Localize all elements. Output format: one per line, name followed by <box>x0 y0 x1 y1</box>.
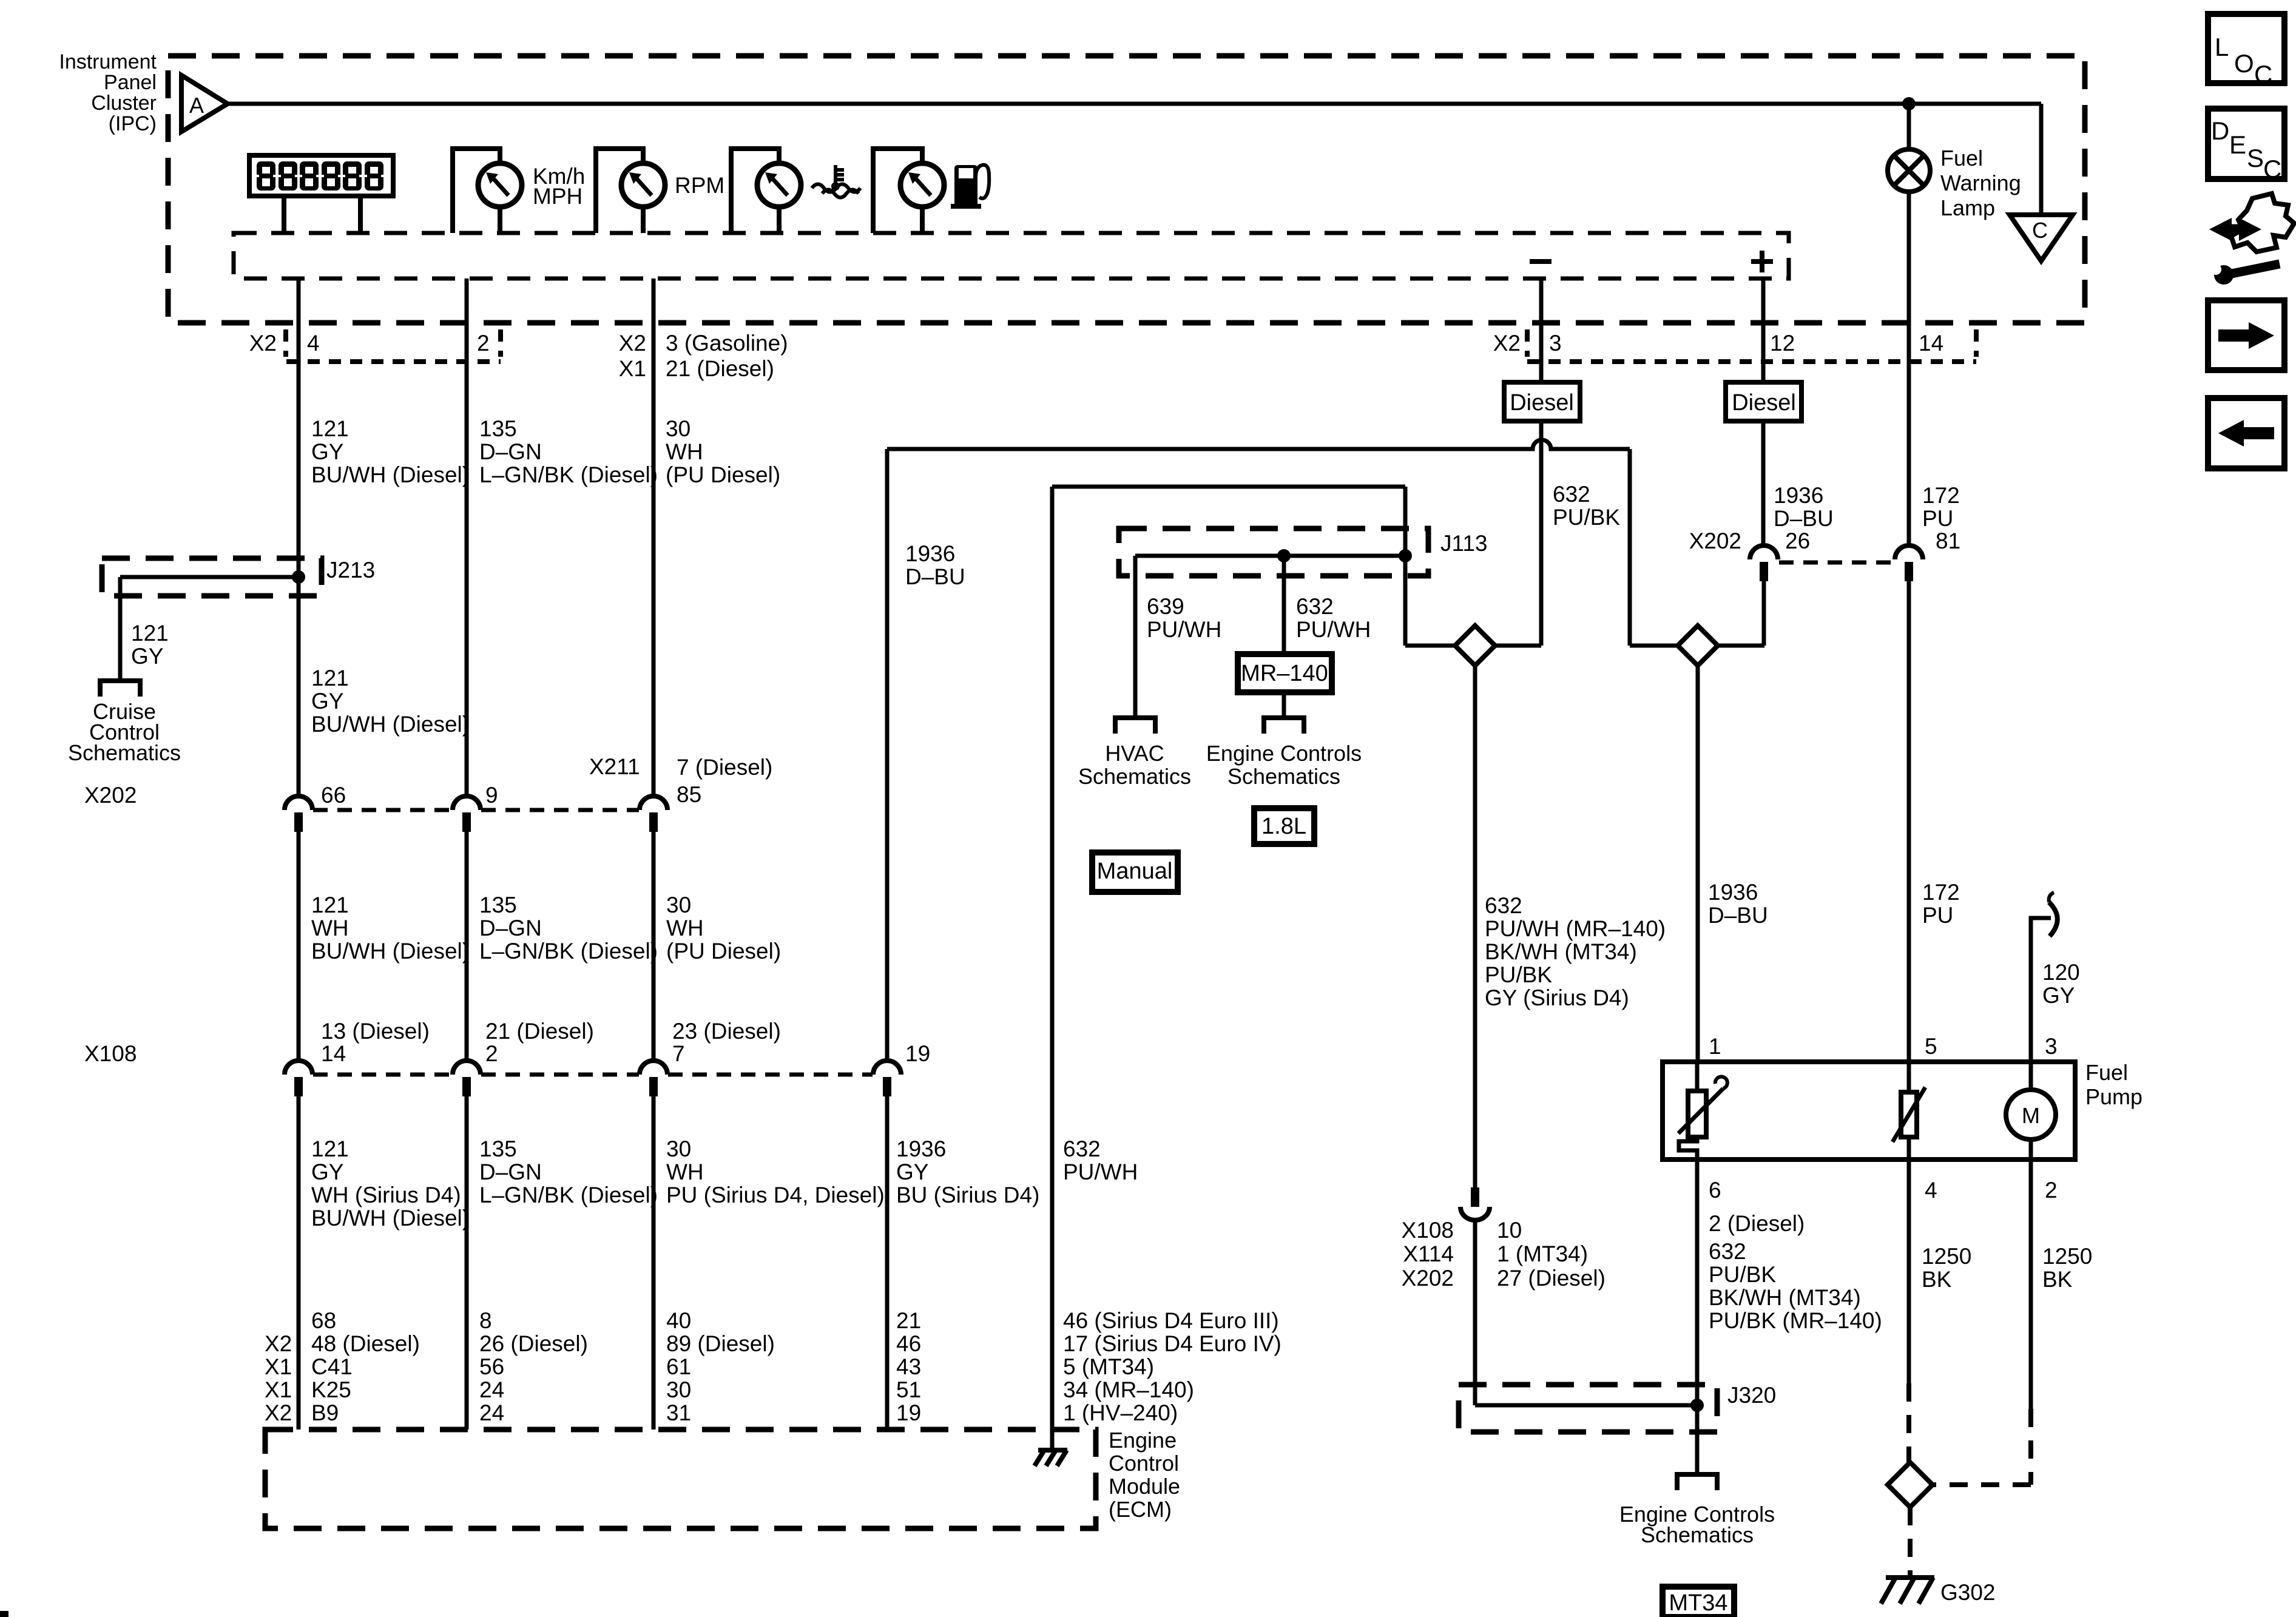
svg-text:3: 3 <box>1549 331 1562 356</box>
svg-text:1936: 1936 <box>905 541 955 566</box>
svg-text:Schematics: Schematics <box>1641 1522 1754 1547</box>
speedometer gauge Km/h MPH <box>453 149 500 233</box>
wire - J113 to splice diamond A <box>1403 556 1408 646</box>
wire - diamond A down to splice connector <box>1473 666 1477 1187</box>
svg-text:X202: X202 <box>1402 1266 1454 1291</box>
svg-text:2 (Diesel): 2 (Diesel) <box>1709 1211 1805 1236</box>
svg-text:89 (Diesel): 89 (Diesel) <box>666 1331 775 1356</box>
svg-text:5 (MT34): 5 (MT34) <box>1063 1354 1154 1379</box>
node - J213 junction dot <box>292 570 305 584</box>
wire 1250 BK from pump pin 2 <box>2029 1160 2033 1409</box>
wire 121 GY column (IPC pin 4 to ECM) <box>297 383 301 796</box>
svg-text:56: 56 <box>479 1354 504 1379</box>
svg-text:X202: X202 <box>1689 528 1741 553</box>
wire - IPC pin 12 (plus) lead <box>1761 279 1766 383</box>
node - J113 dot right <box>1399 549 1412 562</box>
wire 632 PU/WH branch to MR-140 <box>1282 556 1286 654</box>
wire 121 lower segment to ECM <box>297 1096 301 1430</box>
svg-text:C: C <box>2254 60 2272 89</box>
svg-text:(PU Diesel): (PU Diesel) <box>666 462 780 487</box>
svg-text:Schematics: Schematics <box>68 740 181 765</box>
svg-text:M: M <box>2022 1103 2040 1128</box>
svg-text:46: 46 <box>896 1331 921 1356</box>
1.8L option box <box>1254 808 1314 844</box>
wire 30 WH column (IPC pin 3/21 to ECM) <box>652 383 656 796</box>
svg-text:GY: GY <box>896 1160 928 1184</box>
svg-text:Engine Controls: Engine Controls <box>1206 741 1362 766</box>
svg-text:8: 8 <box>479 1308 492 1333</box>
connector X202 bump pin 9 <box>453 796 481 810</box>
wire 1936 right drop to diamond B <box>1628 449 1632 646</box>
off-page connector to Engine Controls MT34 <box>1677 1474 1717 1490</box>
svg-text:PU/WH (MR–140): PU/WH (MR–140) <box>1485 916 1666 941</box>
svg-text:1250: 1250 <box>2042 1244 2092 1269</box>
svg-text:13 (Diesel): 13 (Diesel) <box>321 1019 430 1044</box>
svg-text:BU/WH (Diesel): BU/WH (Diesel) <box>311 939 470 964</box>
svg-text:27 (Diesel): 27 (Diesel) <box>1497 1266 1606 1291</box>
svg-text:23 (Diesel): 23 (Diesel) <box>672 1019 781 1044</box>
svg-text:40: 40 <box>666 1308 691 1333</box>
fuel level gauge <box>873 149 922 233</box>
svg-text:135: 135 <box>479 1136 517 1161</box>
svg-text:6: 6 <box>1709 1178 1721 1203</box>
svg-text:7 (Diesel): 7 (Diesel) <box>677 755 772 780</box>
svg-text:2: 2 <box>485 1041 498 1066</box>
wire 1936 riser at left <box>885 449 890 1061</box>
svg-text:MR–140: MR–140 <box>1241 661 1328 686</box>
connector X108 bump pin 14 <box>285 1061 312 1075</box>
svg-text:L: L <box>2215 33 2229 61</box>
svg-text:L–GN/BK (Diesel): L–GN/BK (Diesel) <box>479 462 658 487</box>
connector A triangle (IPC data line driver) <box>181 75 228 132</box>
Engine Control Module (ECM) dashed box <box>265 1430 1096 1528</box>
svg-text:172: 172 <box>1922 880 1960 905</box>
svg-text:GY: GY <box>311 1160 343 1184</box>
svg-text:632: 632 <box>1485 893 1522 918</box>
svg-text:26 (Diesel): 26 (Diesel) <box>479 1331 588 1356</box>
svg-text:E: E <box>2229 130 2246 159</box>
coolant temperature gauge <box>731 149 779 233</box>
connector X202 dashed plane right <box>1779 561 1893 565</box>
svg-text:7: 7 <box>672 1041 685 1066</box>
connector X108 bump pin 7 <box>640 1061 667 1075</box>
svg-text:D–GN: D–GN <box>479 439 542 464</box>
wire 30 lower segment to ECM <box>652 1096 656 1430</box>
connector X202 bump pin 66 <box>285 796 312 810</box>
svg-text:L–GN/BK (Diesel): L–GN/BK (Diesel) <box>479 1183 658 1207</box>
svg-text:Engine: Engine <box>1109 1428 1177 1453</box>
wire 1250 BK from pump pin 4 <box>1907 1160 1911 1383</box>
odometer display (888888) <box>249 155 393 196</box>
svg-text:19: 19 <box>905 1041 930 1066</box>
svg-text:PU: PU <box>1922 506 1953 531</box>
Fuel Pump box <box>1663 1062 2075 1160</box>
wire - diamond A to 632 PU/BK riser <box>1495 644 1541 648</box>
wire - splice connector down to J320 <box>1473 1220 1477 1405</box>
page artifact dot bottom-left <box>0 1611 8 1617</box>
wire 1936 horizontal run <box>887 440 1630 449</box>
svg-text:Cluster: Cluster <box>91 92 157 115</box>
Manual option box <box>1092 852 1178 892</box>
svg-text:D–BU: D–BU <box>905 564 965 589</box>
svg-text:WH: WH <box>666 439 703 464</box>
svg-text:4: 4 <box>307 331 320 356</box>
svg-text:BK/WH (MT34): BK/WH (MT34) <box>1709 1285 1861 1310</box>
node - junction at fuel warning lamp <box>1902 97 1916 110</box>
svg-text:61: 61 <box>666 1354 691 1379</box>
fuel pump motor M <box>2029 1062 2033 1090</box>
svg-text:632: 632 <box>1709 1239 1746 1264</box>
svg-text:21 (Diesel): 21 (Diesel) <box>666 356 774 381</box>
svg-text:X114: X114 <box>1403 1241 1454 1266</box>
wire 135 D-GN column (IPC pin 2 to ECM) <box>465 383 469 796</box>
inner dashed box around gauge commons <box>234 233 1789 279</box>
wire dashed splice to G302 <box>1908 1507 1913 1575</box>
off-page connector to Engine Controls <box>1264 718 1304 734</box>
wire dashed pin2 to ground splice <box>2028 1409 2033 1485</box>
wire - diamond B right to Diesel 2 drop <box>1718 644 1764 648</box>
off-page connector to Cruise Control <box>100 681 140 697</box>
svg-text:C: C <box>2032 218 2048 243</box>
svg-text:D–BU: D–BU <box>1708 903 1768 928</box>
wire 121 WH middle segment <box>297 832 301 1061</box>
svg-text:121: 121 <box>311 666 349 690</box>
wire 135 lower segment to ECM <box>465 1096 469 1430</box>
svg-text:GY: GY <box>2042 983 2075 1008</box>
ground G302 symbol <box>1886 1575 1934 1580</box>
svg-text:GY: GY <box>311 689 343 714</box>
svg-text:30: 30 <box>666 1377 691 1402</box>
Instrument Panel Cluster (IPC) dashed boundary <box>168 56 2085 323</box>
svg-text:21: 21 <box>896 1308 921 1333</box>
svg-text:BU (Sirius D4): BU (Sirius D4) <box>896 1183 1039 1207</box>
svg-text:S: S <box>2247 144 2264 172</box>
svg-text:J113: J113 <box>1440 531 1488 556</box>
MT34 option box <box>1663 1587 1734 1617</box>
svg-text:PU/BK: PU/BK <box>1485 962 1552 987</box>
svg-text:121: 121 <box>311 893 349 917</box>
svg-text:66: 66 <box>321 783 346 808</box>
svg-text:GY (Sirius D4): GY (Sirius D4) <box>1485 985 1629 1010</box>
svg-text:3 (Gasoline): 3 (Gasoline) <box>666 331 788 356</box>
wire - IPC pin 3/21 lead <box>652 279 656 383</box>
fuel pump resistor 2 <box>1907 1062 1911 1092</box>
svg-text:Instrument: Instrument <box>59 50 157 73</box>
svg-text:J213: J213 <box>326 558 375 582</box>
svg-text:X2: X2 <box>265 1400 292 1425</box>
svg-text:PU/BK: PU/BK <box>1553 505 1620 530</box>
svg-text:1250: 1250 <box>1922 1244 1971 1269</box>
svg-text:Warning: Warning <box>1940 170 2021 195</box>
forward arrow legend box <box>2208 300 2284 370</box>
svg-text:D–GN: D–GN <box>479 916 542 940</box>
wire 632 PU/BK pump pin6 to J320 <box>1695 1160 1700 1405</box>
coolant temp icon (thermometer in liquid) <box>834 165 837 183</box>
svg-text:(IPC): (IPC) <box>109 112 157 135</box>
svg-text:X202: X202 <box>84 783 137 808</box>
wire - to triangle C branch <box>1909 102 2041 106</box>
svg-text:2: 2 <box>477 331 490 356</box>
svg-text:GY: GY <box>131 644 163 669</box>
svg-text:10: 10 <box>1497 1218 1522 1243</box>
svg-text:A: A <box>189 93 204 118</box>
connector bar X2 left (dashed) <box>286 359 501 364</box>
svg-text:Pump: Pump <box>2085 1084 2142 1109</box>
svg-text:Fuel: Fuel <box>1940 146 1983 170</box>
svg-text:PU/WH: PU/WH <box>1147 617 1221 642</box>
svg-text:21 (Diesel): 21 (Diesel) <box>485 1019 594 1044</box>
fuel warning lamp (lamp symbol circle-X) <box>1888 149 1930 192</box>
wire 30 middle segment <box>652 832 656 1061</box>
svg-text:31: 31 <box>666 1400 691 1425</box>
svg-text:Schematics: Schematics <box>1227 764 1340 789</box>
wire - J113 internal bus <box>1135 554 1405 558</box>
svg-text:Lamp: Lamp <box>1940 195 1995 220</box>
svg-text:1936: 1936 <box>896 1136 946 1161</box>
connector X211 bump pin 85 <box>640 796 667 810</box>
svg-text:121: 121 <box>131 621 169 646</box>
fuel level sender (variable resistor with wiper arrow) <box>1695 1062 1700 1091</box>
svg-text:PU: PU <box>1922 903 1953 928</box>
svg-text:1936: 1936 <box>1774 483 1823 508</box>
svg-text:Panel: Panel <box>104 71 157 94</box>
svg-text:632: 632 <box>1063 1136 1101 1161</box>
svg-text:BK/WH (MT34): BK/WH (MT34) <box>1485 939 1637 964</box>
off-page connector to HVAC <box>1115 718 1155 734</box>
connector X108 dashed plane <box>313 1073 452 1077</box>
svg-text:14: 14 <box>321 1041 346 1066</box>
wire below MR-140 <box>1282 692 1286 718</box>
svg-text:Diesel: Diesel <box>1510 390 1574 416</box>
connector bar X2 right (dashed) <box>1527 359 1976 364</box>
svg-text:Module: Module <box>1109 1474 1180 1499</box>
svg-text:Diesel: Diesel <box>1732 390 1796 416</box>
svg-text:135: 135 <box>479 893 517 917</box>
svg-text:81: 81 <box>1936 528 1960 553</box>
plus terminal label <box>1751 259 1773 264</box>
svg-text:121: 121 <box>311 416 349 441</box>
wire 1936 D-BU from Diesel box 2 <box>1761 419 1766 545</box>
wire 135 middle segment <box>465 832 469 1061</box>
connector X202 bump pin 81 <box>1895 545 1923 559</box>
svg-text:K25: K25 <box>311 1377 351 1402</box>
wire - IPC pin 4 lead <box>297 279 301 383</box>
svg-text:B9: B9 <box>311 1400 339 1425</box>
svg-text:135: 135 <box>479 416 517 441</box>
svg-text:PU/WH: PU/WH <box>1063 1160 1138 1184</box>
splice diamond A <box>1455 626 1495 666</box>
svg-text:MPH: MPH <box>533 184 582 209</box>
svg-text:30: 30 <box>666 893 691 917</box>
svg-text:X108: X108 <box>1402 1218 1454 1243</box>
svg-text:1 (HV–240): 1 (HV–240) <box>1063 1400 1178 1425</box>
svg-text:24: 24 <box>479 1377 504 1402</box>
svg-text:46 (Sirius D4 Euro III): 46 (Sirius D4 Euro III) <box>1063 1308 1279 1333</box>
svg-text:X2: X2 <box>619 331 646 356</box>
svg-text:X1: X1 <box>265 1354 292 1379</box>
svg-text:PU (Sirius D4, Diesel): PU (Sirius D4, Diesel) <box>666 1183 885 1207</box>
svg-text:PU/BK (MR–140): PU/BK (MR–140) <box>1709 1308 1882 1333</box>
connector C triangle <box>2010 215 2073 261</box>
svg-text:D–GN: D–GN <box>479 1160 542 1184</box>
svg-text:C: C <box>2263 155 2281 183</box>
svg-text:68: 68 <box>311 1308 336 1333</box>
wire - main serial data line from A <box>228 102 1909 106</box>
Diesel option box 2 <box>1726 382 1801 421</box>
svg-text:BK: BK <box>1922 1267 1952 1292</box>
fuel pump icon <box>954 165 977 205</box>
svg-text:30: 30 <box>666 1136 691 1161</box>
svg-text:3: 3 <box>2045 1034 2058 1059</box>
svg-text:30: 30 <box>666 416 690 441</box>
svg-text:D: D <box>2211 116 2229 145</box>
svg-text:172: 172 <box>1922 483 1960 508</box>
svg-text:G302: G302 <box>1940 1580 1996 1605</box>
DESC legend box <box>2208 109 2284 179</box>
connector X202 dashed plane <box>313 808 452 812</box>
svg-text:9: 9 <box>485 783 498 808</box>
svg-text:HVAC: HVAC <box>1105 741 1164 766</box>
svg-text:WH: WH <box>666 916 704 940</box>
wire - IPC pin 14 lamp lead <box>1907 192 1911 545</box>
svg-text:26: 26 <box>1785 528 1810 553</box>
svg-text:632: 632 <box>1296 594 1334 619</box>
svg-text:19: 19 <box>896 1400 921 1425</box>
svg-text:WH: WH <box>311 916 349 940</box>
wire - IPC pin 3 (minus) lead <box>1539 279 1544 383</box>
node - J320 junction dot <box>1690 1399 1704 1412</box>
svg-text:O: O <box>2234 49 2254 78</box>
svg-text:Manual: Manual <box>1097 859 1173 884</box>
svg-text:BU/WH (Diesel): BU/WH (Diesel) <box>311 712 470 737</box>
svg-text:639: 639 <box>1147 594 1184 619</box>
ground symbol at ECM <box>1038 1448 1067 1453</box>
wire - IPC pin 2 lead <box>465 279 469 383</box>
svg-text:RPM: RPM <box>675 173 724 198</box>
Diesel option box 1 <box>1504 382 1580 421</box>
svg-text:X211: X211 <box>589 754 640 779</box>
wire 1250 BK dashed to ground splice <box>1906 1383 1911 1462</box>
svg-text:WH (Sirius D4): WH (Sirius D4) <box>311 1183 461 1207</box>
svg-text:34 (MR–140): 34 (MR–140) <box>1063 1377 1194 1402</box>
wire 1936 lower segment to ECM <box>885 1096 890 1430</box>
wire 120 GY with harness connector hook <box>2031 918 2051 1062</box>
tachometer gauge RPM <box>596 149 643 233</box>
wire - odometer lead 1 <box>282 196 286 233</box>
svg-text:51: 51 <box>896 1377 921 1402</box>
svg-text:1.8L: 1.8L <box>1261 814 1306 839</box>
wire - odometer lead 2 <box>358 196 363 233</box>
svg-text:PU/BK: PU/BK <box>1709 1262 1776 1287</box>
svg-text:14: 14 <box>1919 331 1943 356</box>
wire 632 PU/WH to ECM ground <box>1050 487 1055 1450</box>
MR-140 option box <box>1238 654 1332 692</box>
svg-text:48 (Diesel): 48 (Diesel) <box>311 1331 420 1356</box>
svg-text:4: 4 <box>1925 1178 1937 1203</box>
svg-text:1 (MT34): 1 (MT34) <box>1497 1241 1588 1266</box>
svg-text:1936: 1936 <box>1708 880 1758 905</box>
svg-text:(ECM): (ECM) <box>1109 1497 1172 1522</box>
wire - 632 top horizontal to J113 <box>1052 485 1405 489</box>
wire - J320 to engine controls bracket <box>1695 1405 1700 1474</box>
svg-text:BK: BK <box>2042 1267 2073 1292</box>
svg-text:X108: X108 <box>84 1041 137 1066</box>
svg-text:C41: C41 <box>311 1354 353 1379</box>
connector X202 bump pin 26 <box>1750 545 1778 559</box>
svg-text:120: 120 <box>2042 960 2080 985</box>
svg-text:Schematics: Schematics <box>1078 764 1191 789</box>
diagnostic icon (arrows and wrench) <box>2228 224 2243 235</box>
splice J113 dashed box <box>1119 528 1428 576</box>
svg-text:L–GN/BK (Diesel): L–GN/BK (Diesel) <box>479 939 658 964</box>
svg-text:2: 2 <box>2045 1178 2058 1203</box>
wire 639 PU/WH branch <box>1133 556 1138 718</box>
svg-text:X2: X2 <box>265 1331 292 1356</box>
svg-text:Control: Control <box>1109 1451 1179 1476</box>
connector X108 bump pin 19 <box>873 1061 901 1075</box>
svg-text:X2: X2 <box>249 331 277 356</box>
wire 172 PU to fuel pump pin 5 <box>1907 581 1911 1062</box>
svg-text:17 (Sirius D4 Euro IV): 17 (Sirius D4 Euro IV) <box>1063 1331 1281 1356</box>
svg-text:X2: X2 <box>1493 331 1521 356</box>
connector X108 bump pin 2 <box>453 1061 481 1075</box>
wire - lamp feed down from junction <box>1907 104 1911 149</box>
splice diamond ground <box>1888 1462 1933 1507</box>
svg-text:(PU Diesel): (PU Diesel) <box>666 939 781 964</box>
minus terminal label <box>1530 259 1551 264</box>
svg-text:PU/WH: PU/WH <box>1296 617 1371 642</box>
svg-text:WH: WH <box>666 1160 704 1184</box>
connector X108/X114/X202 inline bump (pin into socket) <box>1471 1187 1479 1207</box>
svg-text:121: 121 <box>311 1136 349 1161</box>
svg-text:X1: X1 <box>265 1377 292 1402</box>
svg-text:24: 24 <box>479 1400 504 1425</box>
svg-text:43: 43 <box>896 1354 921 1379</box>
svg-text:BU/WH (Diesel): BU/WH (Diesel) <box>311 462 470 487</box>
svg-text:Fuel: Fuel <box>2085 1060 2128 1085</box>
wire - J213 branch to cruise control <box>120 575 299 579</box>
svg-text:J320: J320 <box>1727 1383 1776 1408</box>
back arrow legend box <box>2208 398 2284 468</box>
node - J113 dot middle <box>1277 549 1291 562</box>
splice J213 dashed box <box>102 558 322 596</box>
svg-text:85: 85 <box>677 782 701 807</box>
svg-text:BU/WH (Diesel): BU/WH (Diesel) <box>311 1206 470 1230</box>
svg-text:MT34: MT34 <box>1669 1590 1727 1616</box>
splice diamond B <box>1678 626 1718 666</box>
svg-text:632: 632 <box>1553 482 1590 507</box>
svg-text:5: 5 <box>1925 1034 1937 1059</box>
svg-text:X1: X1 <box>619 356 646 381</box>
wire - diamond B down to fuel pump pin 1 <box>1696 666 1700 1062</box>
svg-text:D–BU: D–BU <box>1774 506 1834 531</box>
wire 632 PU/BK from Diesel box 1 <box>1539 419 1544 646</box>
svg-text:GY: GY <box>311 439 343 464</box>
splice J320 dashed box <box>1459 1385 1717 1432</box>
svg-text:12: 12 <box>1770 331 1795 356</box>
svg-text:1: 1 <box>1709 1034 1721 1059</box>
LOC legend box <box>2208 14 2284 83</box>
